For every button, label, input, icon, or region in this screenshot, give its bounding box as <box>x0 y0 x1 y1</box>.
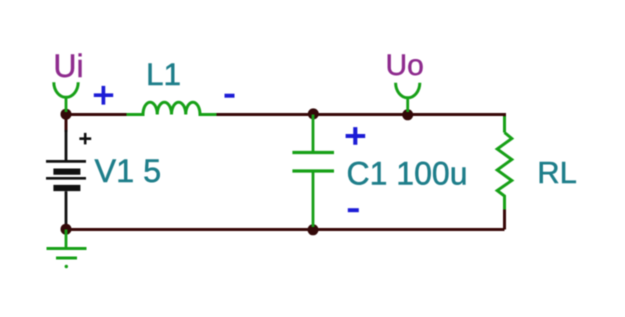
ground bar 2 <box>56 257 77 260</box>
polarity plus (input, blue) <box>94 86 113 105</box>
probe Ui stem <box>65 97 68 112</box>
resistor RL zigzag <box>497 133 512 210</box>
svg-text:L1: L1 <box>146 56 181 92</box>
probe Uo stem <box>406 98 409 113</box>
inductor L1 <box>127 102 217 114</box>
resistor RL top lead <box>503 116 506 132</box>
junction node ground <box>61 224 72 235</box>
wire right vertical (load branch, dark ends) <box>503 209 506 230</box>
capacitor C1 top plate <box>292 151 334 154</box>
ground stem <box>65 230 68 249</box>
polarity minus (after L1, blue) <box>225 94 235 98</box>
probe Ui arc <box>54 82 78 97</box>
polarity plus (capacitor, blue) <box>346 127 366 145</box>
ground bar 1 <box>47 247 87 250</box>
wire battery branch lower (black) <box>65 191 68 228</box>
battery plus mark <box>79 133 91 145</box>
svg-text:C1 100u: C1 100u <box>347 156 468 192</box>
wire top rail left segment <box>66 113 127 116</box>
polarity minus (capacitor, blue) <box>348 208 359 212</box>
wire bottom rail <box>66 228 505 231</box>
svg-text:Ui: Ui <box>53 48 83 84</box>
svg-text:Uo: Uo <box>386 49 424 82</box>
battery V1 plate thick bottom <box>53 185 80 191</box>
capacitor C1 top stem <box>312 115 315 152</box>
battery V1 plate thick upper <box>53 169 80 175</box>
junction node Uo <box>402 109 413 120</box>
svg-text:RL: RL <box>537 155 577 190</box>
junction node capacitor bottom <box>308 224 319 235</box>
battery V1 plate long lower <box>46 177 86 180</box>
ground dot mark <box>65 265 68 268</box>
wire battery branch upper (black) <box>65 130 68 161</box>
capacitor C1 bottom plate <box>292 169 334 172</box>
junction node input top <box>61 109 72 120</box>
capacitor C1 bottom stem <box>312 173 315 228</box>
probe Uo arc <box>396 83 420 98</box>
battery V1 plate long top <box>46 160 86 163</box>
svg-text:V1 5: V1 5 <box>95 153 162 189</box>
wire top rail right segment <box>216 115 505 119</box>
junction node capacitor top <box>308 108 319 119</box>
wire left vertical top stub <box>65 115 68 133</box>
